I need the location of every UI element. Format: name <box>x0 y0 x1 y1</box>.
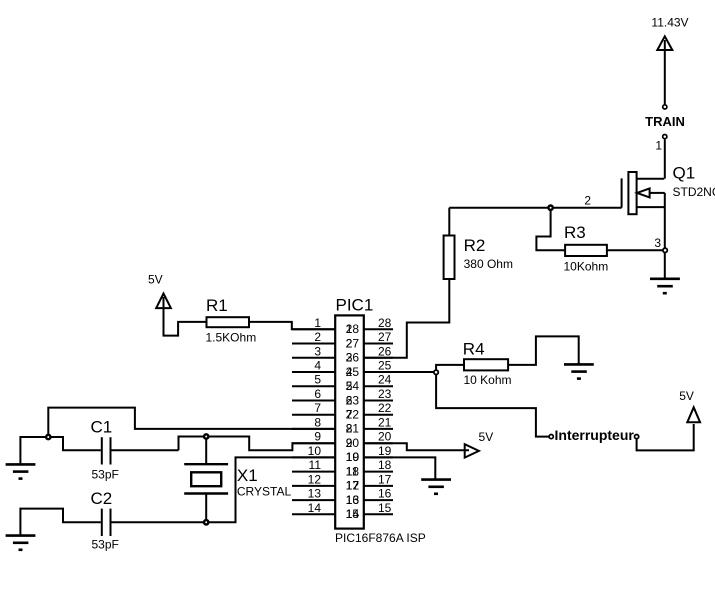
terminal TRAIN bottom <box>663 135 667 139</box>
svg-text:Q1: Q1 <box>673 164 696 183</box>
power 11.43V arrow <box>657 36 672 50</box>
wire Q1 source down to node 3 <box>664 193 666 250</box>
svg-text:18: 18 <box>346 464 360 478</box>
svg-text:12: 12 <box>308 472 322 486</box>
transistor Q1 channel plate <box>628 172 636 214</box>
svg-text:1: 1 <box>314 316 321 330</box>
power 5V arrow left <box>156 294 171 309</box>
svg-text:4: 4 <box>314 359 321 373</box>
svg-text:STD2NC50: STD2NC50 <box>673 185 715 199</box>
svg-text:14: 14 <box>308 501 322 515</box>
wire node 3 to ground <box>664 250 666 278</box>
svg-text:23: 23 <box>378 387 392 401</box>
power 5V arrow right <box>687 407 700 422</box>
wire T2 to Q1 drain <box>664 140 666 179</box>
wire dot to C1 left <box>48 437 101 450</box>
svg-text:PIC16F876A ISP: PIC16F876A ISP <box>335 531 426 545</box>
resistor R4 body <box>464 359 508 370</box>
svg-text:R1: R1 <box>206 296 228 315</box>
pin stubs left <box>292 328 335 330</box>
wire jog junction to R3 <box>536 208 565 251</box>
chip PIC1 outline <box>335 315 364 528</box>
node dot gate junction <box>548 206 552 210</box>
svg-text:22: 22 <box>378 401 392 415</box>
capacitor C2 plates <box>101 509 103 536</box>
wire R2 bottom to pin 26 <box>364 279 449 358</box>
svg-text:380 Ohm: 380 Ohm <box>464 257 513 271</box>
node 3 <box>663 248 667 252</box>
wire C2 right to crystal dot <box>112 521 207 523</box>
svg-text:19: 19 <box>346 450 360 464</box>
svg-text:Interrupteur: Interrupteur <box>555 427 635 443</box>
svg-text:3: 3 <box>314 344 321 358</box>
svg-text:18: 18 <box>378 458 392 472</box>
svg-text:10 Kohm: 10 Kohm <box>464 373 512 387</box>
svg-text:CRYSTAL: CRYSTAL <box>237 485 292 499</box>
svg-text:17: 17 <box>378 472 392 486</box>
wire TRAIN net top <box>664 40 666 105</box>
ground left C1 <box>6 463 36 466</box>
svg-text:1: 1 <box>655 139 662 153</box>
svg-text:10: 10 <box>308 444 322 458</box>
svg-text:28: 28 <box>378 316 392 330</box>
svg-text:1.5KOhm: 1.5KOhm <box>206 331 257 345</box>
svg-text:13: 13 <box>308 487 322 501</box>
svg-text:8: 8 <box>314 415 321 429</box>
transistor Q1 drain lead <box>637 178 665 180</box>
transistor Q1 body arrow <box>637 188 650 197</box>
svg-text:PIC1: PIC1 <box>336 296 374 315</box>
pin stubs right <box>364 328 393 330</box>
transistor Q1 body lead <box>650 192 665 194</box>
svg-text:R2: R2 <box>464 236 486 255</box>
wire interrupteur right terminal to 5V <box>637 424 694 450</box>
power 5V arrow pin19 <box>465 444 479 457</box>
ground Q1 source <box>650 277 680 280</box>
svg-text:6: 6 <box>314 387 321 401</box>
svg-text:11.43V: 11.43V <box>651 16 688 30</box>
ground right of R4 <box>564 363 594 366</box>
resistor R1 body <box>207 317 250 327</box>
svg-text:9: 9 <box>314 430 321 444</box>
wire R3 to node 3 <box>607 249 665 251</box>
wire 5V to R1 <box>164 297 207 336</box>
svg-text:27: 27 <box>346 336 360 350</box>
node junction pin 25 <box>434 370 438 374</box>
svg-text:24: 24 <box>346 379 360 393</box>
svg-text:53pF: 53pF <box>92 538 119 552</box>
svg-text:3: 3 <box>654 236 661 250</box>
svg-text:5V: 5V <box>479 430 494 444</box>
svg-text:2: 2 <box>584 194 591 208</box>
svg-text:53pF: 53pF <box>92 468 119 482</box>
svg-text:TRAIN: TRAIN <box>645 114 685 129</box>
wire pin 25 to junction <box>364 371 436 373</box>
wire junction up to R4 <box>436 365 464 372</box>
wire crystal dot to pin 10 <box>206 457 335 522</box>
wire crystal bottom stub <box>205 494 207 523</box>
wire R2 top to gate <box>448 208 450 236</box>
terminal TRAIN top <box>663 105 667 109</box>
svg-text:25: 25 <box>378 359 392 373</box>
wire crystal top stub <box>205 437 207 465</box>
svg-text:R3: R3 <box>564 223 586 242</box>
svg-text:23: 23 <box>346 393 360 407</box>
svg-text:26: 26 <box>346 351 360 365</box>
svg-text:21: 21 <box>346 422 360 436</box>
wire R4 right to ground <box>508 336 579 365</box>
svg-text:16: 16 <box>378 487 392 501</box>
node dot pin8/ground/C1 <box>46 435 50 439</box>
svg-text:27: 27 <box>378 330 392 344</box>
svg-text:2: 2 <box>314 330 321 344</box>
svg-text:5V: 5V <box>679 389 694 403</box>
crystal X1 body <box>191 472 221 486</box>
svg-text:X1: X1 <box>237 466 258 485</box>
terminal interrupteur right <box>635 435 639 439</box>
svg-text:5V: 5V <box>148 273 163 287</box>
svg-text:C1: C1 <box>91 418 113 437</box>
svg-text:R4: R4 <box>463 340 485 359</box>
wire dot to ground left <box>20 437 48 464</box>
svg-text:7: 7 <box>314 401 321 415</box>
wire C1 to crystal top to pin 9 <box>179 437 336 451</box>
ground left C2 <box>6 534 36 537</box>
svg-text:16: 16 <box>346 493 360 507</box>
transistor Q1 source lead <box>637 206 665 208</box>
svg-text:24: 24 <box>378 373 392 387</box>
wire R1 to pin 1 <box>249 322 335 329</box>
capacitor C1 plates <box>101 437 103 464</box>
svg-text:5: 5 <box>314 373 321 387</box>
resistor R2 body <box>444 236 455 280</box>
wire gate from R2 top <box>449 207 621 209</box>
crystal X1 top bar <box>184 463 228 465</box>
svg-text:25: 25 <box>346 365 360 379</box>
wire junction down to interrupteur <box>436 372 549 437</box>
ground pin 20 <box>421 478 451 481</box>
svg-text:15: 15 <box>378 501 392 515</box>
resistor R3 body <box>565 245 607 256</box>
wire pin 20 to ground <box>364 457 435 479</box>
wire C2 left to ground <box>20 509 100 536</box>
svg-text:17: 17 <box>346 479 360 493</box>
svg-text:10Kohm: 10Kohm <box>564 260 609 274</box>
svg-text:20: 20 <box>378 430 392 444</box>
svg-text:26: 26 <box>378 344 392 358</box>
wire pin 19 to 5V arrow <box>364 443 469 450</box>
wire pin 8 net <box>48 408 335 437</box>
svg-text:28: 28 <box>346 322 360 336</box>
node dot crystal bottom <box>204 520 208 524</box>
crystal X1 bottom bar <box>184 492 228 494</box>
node dot crystal top <box>204 434 208 438</box>
svg-text:21: 21 <box>378 415 392 429</box>
wire C1 right <box>112 449 179 451</box>
svg-text:15: 15 <box>346 507 360 521</box>
terminal interrupteur left <box>549 435 553 439</box>
svg-text:19: 19 <box>378 444 392 458</box>
transistor Q1 gate bar <box>621 178 623 207</box>
svg-text:22: 22 <box>346 408 360 422</box>
svg-text:C2: C2 <box>91 489 113 508</box>
svg-text:11: 11 <box>309 458 322 472</box>
svg-text:20: 20 <box>346 436 360 450</box>
